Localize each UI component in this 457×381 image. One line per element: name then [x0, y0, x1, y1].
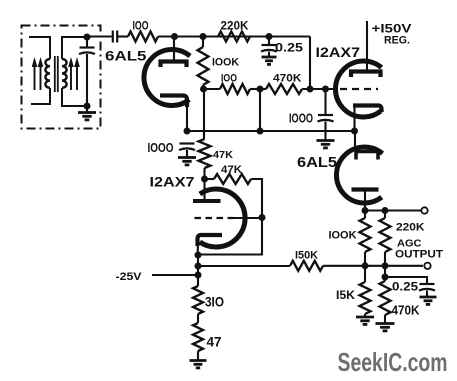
ground (15K)	[356, 316, 374, 319]
wire top rail	[158, 35, 310, 37]
tube V2 grid (dashed)	[340, 88, 378, 90]
svg-text:REG.: REG.	[384, 35, 410, 47]
node P	[362, 207, 369, 214]
node L	[259, 214, 266, 221]
ground (0.25 bottom)	[420, 296, 437, 299]
resistor 47	[193, 323, 203, 351]
svg-text:6AL5: 6AL5	[105, 48, 147, 64]
resistor 470K (top)	[266, 84, 302, 94]
tube V3 plate	[193, 179, 221, 201]
resistor 220K (right)	[380, 211, 391, 266]
supply +150V REG	[372, 24, 412, 47]
tube V3 grid (dashed)	[195, 217, 263, 219]
resistor 100K (left, vertical)	[198, 37, 209, 90]
node B	[200, 33, 207, 40]
wire bias line	[187, 130, 355, 132]
tube V2 plate	[351, 21, 381, 77]
resistor 100 (top)	[128, 32, 158, 42]
node N	[195, 263, 202, 270]
tube V4 6AL5 envelope	[336, 147, 382, 203]
svg-text:I5K: I5K	[336, 288, 355, 302]
node F	[307, 86, 314, 93]
tube V3 cathode	[198, 235, 223, 255]
svg-text:IOOK: IOOK	[329, 230, 357, 242]
wire node E drop	[259, 89, 261, 131]
wire 100 to 470K	[250, 88, 266, 90]
node E	[257, 86, 264, 93]
resistor 47K (horizontal)	[214, 174, 251, 184]
wire node K to 47K	[205, 178, 215, 180]
resistor 47K (vertical)	[199, 139, 211, 179]
capacitor 0.25 (bottom)	[419, 284, 435, 297]
resistor 15K	[360, 266, 371, 317]
ground (cathode chain)	[190, 359, 207, 362]
node O	[195, 272, 202, 279]
resistor 310	[193, 286, 203, 314]
node R	[362, 262, 369, 269]
wire 310 to 47	[197, 314, 199, 323]
svg-text:I50K: I50K	[295, 250, 318, 262]
tube V4 plate	[355, 131, 378, 160]
svg-text:6AL5: 6AL5	[297, 154, 337, 171]
tuning arrows secondary	[68, 57, 80, 90]
resistor 470K (bottom)	[380, 266, 391, 324]
transformer T1 primary winding	[29, 37, 50, 104]
svg-text:I2AX7: I2AX7	[150, 174, 195, 190]
shield box (dashed)	[22, 26, 101, 129]
node S	[382, 262, 389, 269]
tube V4 cathode	[352, 190, 379, 211]
wire 47 to ground	[197, 351, 199, 361]
node J	[351, 128, 358, 135]
svg-text:220K: 220K	[221, 21, 250, 33]
svg-text:OUTPUT: OUTPUT	[395, 249, 443, 261]
ground (inside box)	[78, 106, 96, 120]
svg-text:IOOO: IOOO	[148, 140, 174, 155]
svg-text:470K: 470K	[273, 73, 302, 85]
transformer T1 core	[55, 56, 58, 92]
svg-text:47K: 47K	[213, 149, 233, 161]
svg-text:IOOO: IOOO	[289, 112, 313, 126]
svg-text:IOOK: IOOK	[212, 57, 239, 69]
node: transformer top junction	[84, 34, 91, 41]
svg-text:47: 47	[207, 334, 222, 350]
wire 150K to divider	[323, 265, 423, 267]
node I	[257, 128, 264, 135]
wire to 0.25 cap	[385, 277, 427, 284]
svg-text:IOO: IOO	[221, 73, 237, 85]
wire cathode chain	[197, 254, 199, 286]
svg-text:47K: 47K	[221, 164, 242, 176]
tube V2 cathode	[353, 106, 382, 132]
capacitor 1000 (right)	[318, 89, 334, 141]
node G	[322, 86, 329, 93]
ground (1000 left)	[178, 156, 196, 159]
capacitor (inside box)	[79, 37, 95, 106]
ground (0.25 top)	[262, 56, 277, 59]
node C	[266, 33, 273, 40]
tuning arrows primary	[32, 57, 44, 90]
resistor 100K (right)	[360, 211, 371, 266]
svg-text:I2AX7: I2AX7	[316, 44, 361, 60]
svg-text:470K: 470K	[392, 303, 421, 318]
resistor 220K	[218, 32, 250, 42]
wire cathode to 150K	[198, 265, 290, 267]
tube V2 12AX7 envelope	[335, 61, 381, 117]
wire node D to resistor	[204, 88, 221, 90]
node M	[195, 252, 202, 259]
terminal (bottom)	[424, 263, 430, 269]
tube V3 12AX7 envelope	[200, 189, 245, 247]
node D	[200, 86, 207, 93]
wire box to coupling capacitor	[87, 35, 112, 37]
tube V1 6AL5 envelope	[144, 50, 190, 106]
capacitor 1000 (left)	[179, 144, 195, 159]
svg-text:3IO: 3IO	[205, 295, 224, 310]
svg-text:-25V: -25V	[116, 271, 143, 283]
wire 47K feedback loop	[198, 179, 262, 255]
node Q	[382, 207, 389, 214]
terminal (top)	[421, 207, 427, 213]
wire right drop	[309, 37, 311, 90]
node: transformer bottom junction	[84, 103, 91, 110]
ground (1000 right)	[317, 139, 335, 142]
wire -25V	[152, 274, 198, 276]
node H	[184, 128, 191, 135]
tube V1 plate	[161, 37, 187, 68]
svg-text:220K: 220K	[396, 222, 425, 234]
coupling capacitor	[113, 31, 117, 43]
node A	[171, 33, 178, 40]
wire 470K to grid	[302, 88, 338, 90]
tube V1 cathode	[160, 96, 187, 132]
node T	[382, 274, 389, 281]
capacitor 0.25 (top)	[261, 37, 277, 58]
svg-text:SeekIC.com: SeekIC.com	[338, 347, 448, 377]
wire cathode to terminal	[365, 209, 421, 211]
wire node D down	[203, 89, 205, 139]
svg-text:0.25: 0.25	[275, 41, 303, 55]
wire capacitor to resistor 100	[117, 35, 128, 37]
transformer T1 secondary winding	[62, 37, 87, 106]
node K	[201, 176, 208, 183]
svg-text:IOO: IOO	[133, 19, 149, 33]
resistor 100 (second)	[220, 84, 250, 94]
ground (470K)	[376, 322, 395, 325]
resistor 150K	[290, 261, 323, 271]
svg-text:0.25: 0.25	[392, 280, 418, 294]
